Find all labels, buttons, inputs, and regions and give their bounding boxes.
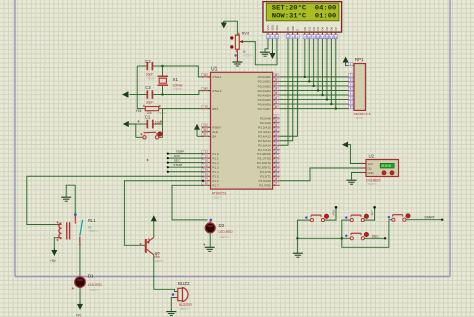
svg-text:P1.4: P1.4 bbox=[212, 170, 219, 174]
power terminal under LCD VDD bbox=[270, 39, 276, 59]
svg-text:<TEXT>: <TEXT> bbox=[89, 288, 100, 292]
U1 left pins with pin numbers bbox=[202, 73, 222, 188]
svg-text:P3.6/WR: P3.6/WR bbox=[259, 179, 272, 183]
LCD module LM016L bbox=[263, 2, 342, 32]
svg-text:P1.7: P1.7 bbox=[212, 184, 219, 188]
svg-text:P1.5: P1.5 bbox=[212, 175, 219, 179]
wire button ADD right to net ADD bbox=[325, 206, 338, 220]
svg-text:C2: C2 bbox=[145, 59, 151, 64]
svg-text:BUZ2: BUZ2 bbox=[178, 281, 190, 286]
wire button ADD left to ground bus bbox=[297, 220, 310, 253]
wire ground bus to DEC button bbox=[296, 237, 350, 239]
transistor Q2 PNP bbox=[143, 237, 164, 263]
resistor R3 bbox=[136, 107, 167, 115]
wire LCD VEE to RV2 wiper bbox=[245, 39, 278, 65]
svg-text:D3: D3 bbox=[316, 27, 320, 31]
wire EA pin to power bbox=[197, 130, 204, 136]
wire net ADD at P1.1 bbox=[167, 154, 204, 159]
svg-text:30pF: 30pF bbox=[146, 100, 153, 104]
svg-text:P1.6: P1.6 bbox=[212, 179, 219, 183]
wire net DEC at P1.2 bbox=[167, 158, 204, 163]
svg-text:ALE: ALE bbox=[212, 130, 218, 134]
relay RL1 bbox=[57, 218, 99, 239]
capacitor C2 bbox=[137, 59, 162, 80]
transistor U2 DS18B20 temperature sensor bbox=[361, 153, 399, 186]
svg-text:P2.4/A12: P2.4/A12 bbox=[258, 135, 271, 139]
svg-text:P1.0: P1.0 bbox=[212, 152, 219, 156]
wire ground vertical for C2 C3 R3 bbox=[130, 66, 138, 109]
svg-text:XTAL2: XTAL2 bbox=[212, 89, 222, 93]
svg-text:<TEXT>: <TEXT> bbox=[173, 87, 184, 91]
wire RV2 top terminal bbox=[224, 21, 238, 35]
wire net at P1.4 bbox=[167, 171, 204, 173]
svg-text:GND: GND bbox=[368, 171, 374, 175]
ground under button bus bbox=[293, 253, 303, 257]
wire C1 right to reset button bbox=[159, 124, 163, 137]
svg-text:P3.0/RXD: P3.0/RXD bbox=[257, 152, 272, 156]
svg-text:P0.6/AD6: P0.6/AD6 bbox=[258, 102, 272, 106]
svg-text:P0.2/AD2: P0.2/AD2 bbox=[258, 84, 272, 88]
potentiometer RV2 bbox=[230, 31, 253, 58]
svg-text:D1: D1 bbox=[307, 27, 311, 31]
wire D2 to ground bbox=[209, 233, 211, 247]
push button ADD bbox=[305, 214, 328, 222]
svg-text:P0.1/AD1: P0.1/AD1 bbox=[258, 80, 272, 84]
svg-text:VSS: VSS bbox=[266, 25, 270, 31]
svg-text:RS: RS bbox=[286, 27, 290, 31]
svg-text:DQ: DQ bbox=[368, 166, 372, 170]
wire U2 DQ to P3.6 bbox=[280, 168, 361, 181]
wire button START right to net START bbox=[406, 215, 443, 220]
wire P1.5 to relay coil bbox=[27, 176, 204, 224]
ground under RV2 bbox=[232, 62, 242, 66]
svg-text:<TEXT>: <TEXT> bbox=[354, 116, 365, 120]
svg-text:R3: R3 bbox=[136, 108, 142, 113]
ground under LCD VSS bbox=[260, 52, 270, 56]
svg-text:ADD: ADD bbox=[174, 154, 181, 158]
push button DEC bbox=[345, 232, 368, 240]
svg-text:E: E bbox=[296, 29, 300, 31]
svg-text:SET:20°C 04:00: SET:20°C 04:00 bbox=[272, 4, 337, 12]
power terminal +5V left of C1 bbox=[123, 121, 136, 127]
svg-text:P2.5/A13: P2.5/A13 bbox=[258, 139, 271, 143]
svg-text:<TEXT>: <TEXT> bbox=[366, 182, 377, 186]
svg-text:<TEXT>: <TEXT> bbox=[88, 229, 99, 233]
LCD text line 2 bbox=[272, 12, 337, 20]
wire Q2 collector to buzzer bbox=[154, 255, 178, 292]
wire LCD E to P2.4 bbox=[280, 39, 298, 136]
svg-text:<TEXT>: <TEXT> bbox=[243, 53, 254, 57]
svg-text:P2.3/A11: P2.3/A11 bbox=[258, 130, 271, 134]
power terminal down arrow at RV2 top bbox=[221, 21, 227, 29]
power terminal above RP1 bbox=[343, 57, 349, 63]
svg-text:11: 11 bbox=[321, 35, 324, 39]
svg-text:D5: D5 bbox=[325, 27, 329, 31]
power terminal +5V under D1 bbox=[76, 303, 84, 317]
svg-text:P3.7/RD: P3.7/RD bbox=[259, 184, 271, 188]
svg-text:XTAL1: XTAL1 bbox=[212, 75, 222, 79]
wire P0 bus rows to RP1 bbox=[280, 77, 348, 109]
power terminal above Q2 bbox=[151, 215, 157, 221]
svg-text:PSEN: PSEN bbox=[212, 126, 220, 130]
svg-text:DEC: DEC bbox=[174, 158, 181, 162]
svg-text:NOW:31°C 01:00: NOW:31°C 01:00 bbox=[272, 12, 337, 20]
power terminal left arrow for U2 bbox=[342, 142, 348, 148]
svg-text:P2.6/A14: P2.6/A14 bbox=[258, 144, 271, 148]
svg-text:SET: SET bbox=[370, 210, 374, 216]
svg-text:P2.2/A10: P2.2/A10 bbox=[258, 125, 271, 129]
svg-text:DEC: DEC bbox=[372, 235, 380, 239]
svg-text:D2: D2 bbox=[219, 223, 225, 228]
junction dots data bus on P0 rows bbox=[304, 76, 337, 110]
power terminal +5V under relay coil bbox=[50, 249, 57, 264]
svg-text:13: 13 bbox=[330, 35, 334, 39]
svg-text:P1.3: P1.3 bbox=[212, 165, 219, 169]
svg-text:RV2: RV2 bbox=[242, 31, 250, 36]
svg-text:LED-RED: LED-RED bbox=[88, 283, 103, 287]
buzzer BUZ2 bbox=[172, 281, 193, 311]
diode D2 LED-RED bbox=[205, 219, 233, 239]
svg-text:LED-RED: LED-RED bbox=[219, 230, 234, 234]
LCD pin names and pin numbers 1-14 bbox=[266, 25, 338, 40]
svg-text:D7: D7 bbox=[334, 27, 338, 31]
power terminal up arrow at EA bbox=[194, 124, 200, 130]
svg-text:C1: C1 bbox=[145, 114, 151, 119]
svg-text:<TEXT>: <TEXT> bbox=[157, 111, 168, 115]
RP1 pin stubs bbox=[348, 62, 355, 109]
svg-text:P3.1/TXD: P3.1/TXD bbox=[257, 156, 271, 160]
svg-text:VEE: VEE bbox=[275, 25, 279, 31]
svg-text:RST: RST bbox=[212, 107, 218, 111]
svg-text:U1: U1 bbox=[211, 66, 218, 72]
svg-text:P3.4/T0: P3.4/T0 bbox=[260, 170, 271, 174]
wire RP1 common to power bbox=[346, 63, 348, 66]
wire buzzer to ground bbox=[171, 298, 174, 312]
svg-text:C3: C3 bbox=[145, 85, 151, 90]
svg-text:P1.2: P1.2 bbox=[212, 161, 219, 165]
svg-text:D2: D2 bbox=[312, 27, 316, 31]
svg-text:D6: D6 bbox=[329, 27, 333, 31]
svg-text:START: START bbox=[173, 163, 183, 167]
svg-text:P3.2/INT0: P3.2/INT0 bbox=[257, 161, 271, 165]
svg-text:<TEXT>: <TEXT> bbox=[179, 307, 190, 311]
wire LCD RW to P2.5 bbox=[280, 39, 293, 141]
wire ground to relay NO contact bbox=[66, 185, 75, 216]
U1 right pins with pin numbers bbox=[257, 73, 280, 188]
svg-text:D1: D1 bbox=[88, 274, 94, 279]
resistor pack RP1 RESPACK-8 bbox=[354, 57, 371, 120]
wire button SET left down to START button bbox=[341, 220, 392, 248]
wire net TEMP at P1.0 bbox=[167, 149, 204, 154]
ground under buzzer bbox=[166, 312, 176, 316]
svg-text:RW: RW bbox=[291, 26, 295, 31]
svg-text:D4: D4 bbox=[321, 27, 325, 31]
svg-text:+5V: +5V bbox=[50, 259, 57, 263]
wire LCD data D0-D7 to port P0 bus bbox=[305, 39, 336, 109]
ground above relay bbox=[61, 197, 71, 201]
svg-text:VCC: VCC bbox=[368, 162, 374, 166]
svg-text:P3.3/INT1: P3.3/INT1 bbox=[257, 165, 271, 169]
svg-text:<TEXT>: <TEXT> bbox=[212, 195, 223, 199]
push button START bbox=[388, 214, 410, 222]
svg-text:P3.5/T1: P3.5/T1 bbox=[260, 175, 271, 179]
wire D1 to +5V bbox=[79, 287, 81, 303]
svg-text:P0.3/AD3: P0.3/AD3 bbox=[258, 89, 272, 93]
wire LCD RS to P2.6 bbox=[280, 39, 288, 145]
wire C2 to XTAL1 bbox=[163, 66, 211, 77]
svg-text:P2.0/A8: P2.0/A8 bbox=[260, 116, 271, 120]
svg-text:P2.1/A9: P2.1/A9 bbox=[260, 121, 271, 125]
ground under U2 bbox=[347, 180, 357, 184]
wire RST node to pin 9 bbox=[163, 109, 211, 124]
svg-text:12: 12 bbox=[325, 35, 329, 39]
svg-text:<TEXT>: <TEXT> bbox=[146, 76, 157, 80]
svg-text:VDD: VDD bbox=[271, 25, 275, 31]
svg-text:14: 14 bbox=[334, 35, 338, 39]
ground terminal left of C3 bbox=[122, 92, 128, 98]
wire P1.7 to D2 bbox=[172, 185, 208, 220]
capacitor C3 bbox=[137, 85, 162, 104]
wire net START at P1.3 bbox=[167, 163, 204, 168]
wire button SET right to net SET bbox=[365, 206, 376, 220]
LCD text line 1 bbox=[272, 4, 337, 12]
node XTAL1 junction bbox=[161, 65, 163, 67]
ground under D2 bbox=[205, 247, 215, 251]
wire U2 GND to ground bbox=[352, 173, 362, 180]
svg-text:P0.5/AD5: P0.5/AD5 bbox=[258, 98, 272, 102]
crystal X1 bbox=[158, 66, 184, 95]
reset push button bbox=[143, 132, 162, 139]
svg-text:P1.1: P1.1 bbox=[212, 156, 219, 160]
wire Q2 emitter to power bbox=[153, 221, 155, 237]
svg-text:P0.7/AD7: P0.7/AD7 bbox=[258, 107, 272, 111]
wire U2 VCC to power bbox=[348, 145, 361, 164]
svg-text:D0: D0 bbox=[303, 27, 307, 31]
push button SET bbox=[345, 214, 368, 222]
svg-text:RP1: RP1 bbox=[355, 57, 364, 62]
svg-text:ADD: ADD bbox=[332, 210, 336, 216]
svg-text:P0.0/AD0: P0.0/AD0 bbox=[258, 75, 272, 79]
svg-text:+5V: +5V bbox=[76, 314, 83, 317]
wire button DEC right to net DEC bbox=[365, 235, 387, 240]
wire relay common to D1 bbox=[79, 243, 81, 277]
node XTAL2 junction bbox=[161, 93, 163, 95]
pin origin cross marks bbox=[56, 33, 239, 290]
wire P1.6 to Q2 base bbox=[124, 180, 204, 246]
wire relay coil to +5V bbox=[54, 238, 56, 250]
svg-text:TEMP: TEMP bbox=[176, 149, 184, 153]
diode D1 LED-RED bbox=[75, 274, 103, 292]
relay switch contact bbox=[74, 213, 83, 242]
svg-text:X1: X1 bbox=[173, 77, 179, 82]
wire C3 to XTAL2 bbox=[163, 91, 211, 95]
svg-text:START: START bbox=[424, 215, 434, 219]
wire C1 left to reset button bbox=[136, 124, 143, 137]
svg-text:U2: U2 bbox=[369, 153, 375, 158]
wire LCD VSS to ground bbox=[265, 39, 268, 52]
op-amp U1 microcontroller AT89C51 body bbox=[211, 66, 273, 199]
svg-text:RL1: RL1 bbox=[88, 218, 96, 223]
capacitor C1 bbox=[136, 114, 163, 128]
svg-text:<TEXT>: <TEXT> bbox=[154, 259, 165, 263]
svg-text:<TEXT>: <TEXT> bbox=[219, 235, 230, 239]
svg-text:10: 10 bbox=[316, 35, 320, 39]
wire RV2 bottom to ground bbox=[236, 49, 238, 62]
svg-text:P0.4/AD4: P0.4/AD4 bbox=[258, 93, 272, 97]
